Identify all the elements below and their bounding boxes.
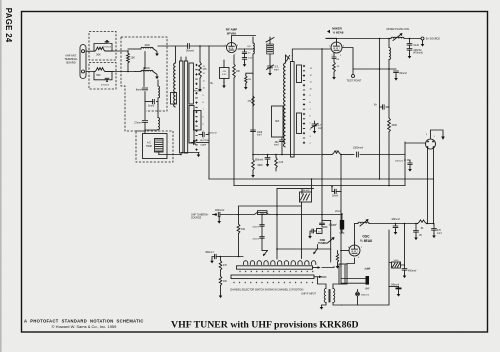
mixer wafer rotor arrows [286, 55, 290, 61]
wire bus y188.6 [277, 179, 314, 194]
ground RF cathode box [223, 79, 225, 84]
svg-text:470mmf: 470mmf [103, 46, 111, 48]
test point terminal [347, 69, 362, 83]
UHF osc coax connector [340, 213, 345, 235]
wire osc grid [354, 224, 356, 244]
svg-text:6: 6 [237, 45, 238, 47]
wire bus y206 [239, 202, 302, 259]
svg-text:15K: 15K [131, 57, 136, 60]
capacitor 1500mmf wafer bypass [199, 132, 217, 136]
mixer switch wafer strip 2 [297, 65, 302, 83]
wire left feed junction [252, 154, 254, 156]
ground wafer [198, 153, 200, 155]
RF wafer contact ticks [196, 64, 197, 150]
svg-text:mmf: mmf [248, 58, 253, 60]
resistor 390-560 boxed [300, 190, 312, 202]
svg-text:A PHOTOFACT STANDARD NOTATI: A PHOTOFACT STANDARD NOTATION SCHEMATIC [24, 318, 144, 323]
svg-text:mmf: mmf [274, 145, 279, 147]
wire bus AGC y185.5 [234, 185, 405, 187]
wire osc cathode left [341, 250, 349, 252]
wire RF grid line [158, 46, 188, 60]
svg-text:SOURCE: SOURCE [191, 217, 202, 220]
wire main vertical bus left [208, 46, 210, 179]
resistor 10K osc lower [219, 276, 228, 298]
capacitor 180mmf osc plate [391, 219, 416, 235]
svg-text:CHANNEL SELECTOR SWITCH SHOWN: CHANNEL SELECTOR SWITCH SHOWN IN CHANNEL… [230, 288, 304, 291]
resistor 15K antenna shunt [127, 50, 136, 72]
wire wafer bottom bus [181, 152, 199, 154]
resistor 1M bleeder [244, 73, 253, 89]
svg-text:MIXER PLATE COIL: MIXER PLATE COIL [387, 28, 410, 31]
svg-text:400mmf: 400mmf [408, 271, 417, 273]
svg-text:7: 7 [235, 54, 236, 56]
wire mixer plate to B+ rail [336, 39, 338, 40]
oscillator switch stator bar 2 [231, 275, 322, 279]
antenna balun coil lower 1000 [135, 67, 159, 79]
channel number column mixer wafer [310, 68, 313, 145]
wire osc switch feed [221, 256, 244, 258]
svg-text:.005mfd: .005mfd [413, 50, 422, 52]
svg-text:UHF: UHF [340, 232, 345, 235]
svg-text:10: 10 [318, 231, 320, 233]
osc section coil box [339, 264, 347, 284]
capacitor 56mmf grid [186, 44, 226, 53]
arrow UHF B+ source [213, 214, 217, 216]
svg-text:82mmf: 82mmf [400, 72, 408, 75]
resistor 3300 IF [388, 118, 398, 186]
svg-text:56mmf: 56mmf [186, 49, 194, 52]
svg-text:5mmf: 5mmf [332, 196, 338, 198]
B+ supply terminal [421, 37, 441, 47]
wire AGC vertical [233, 78, 235, 186]
wire mixer output to test point [342, 48, 396, 70]
svg-text:47K: 47K [203, 68, 208, 71]
UHF IF coax connector [365, 268, 371, 290]
wire IF output drop [388, 69, 390, 118]
svg-text:470mmf: 470mmf [101, 85, 109, 87]
RF cathode network box [220, 60, 230, 85]
svg-text:390mmf: 390mmf [255, 160, 264, 162]
wire mixer plate rail [326, 38, 391, 40]
capacitor 62mmf osc injection [253, 237, 265, 251]
svg-text:10K: 10K [241, 228, 246, 231]
dashed shield box antenna coils [121, 37, 167, 131]
capacitor .05 osc [414, 224, 423, 241]
svg-text:VHF ANT.: VHF ANT. [65, 54, 77, 58]
wire balun center tap [144, 52, 146, 69]
svg-text:1000mmf: 1000mmf [215, 210, 225, 212]
tube V4 UHF oscillator socket [426, 130, 445, 149]
svg-text:47K: 47K [223, 265, 228, 267]
svg-text:MIX: MIX [275, 121, 280, 123]
svg-text:10K: 10K [223, 281, 228, 283]
trimmer capacitor .5-3mmf [267, 60, 279, 76]
input coil lower [145, 105, 160, 130]
wire uhf if link [342, 279, 366, 284]
svg-text:2: 2 [329, 46, 330, 48]
svg-text:180mmf: 180mmf [361, 294, 369, 296]
neutralizing capacitor [191, 139, 211, 147]
RF lower wafer box [194, 111, 202, 131]
dashed shield box upper antenna network [89, 32, 116, 61]
capacitor RF bypass pair [238, 49, 255, 67]
RF switch wafer strip 1 [180, 57, 183, 153]
capacitor 390mmf agc bypass [255, 155, 270, 167]
wire antenna bottom lead [86, 71, 135, 73]
wire right IF vertical [404, 142, 406, 186]
resistor 56K upper [95, 47, 113, 56]
tube V3 oscillator triode [348, 243, 363, 259]
svg-text:1000: 1000 [144, 44, 150, 47]
svg-text:3300: 3300 [392, 124, 398, 127]
svg-text:½ 6EA8: ½ 6EA8 [360, 239, 372, 243]
svg-text:6FV8A: 6FV8A [227, 31, 237, 35]
svg-text:VHF TUNER with UHF provisions: VHF TUNER with UHF provisions KRK86D [171, 319, 359, 330]
oscillator switch stator bar 1 [237, 266, 321, 269]
RF coil wafer winding [174, 60, 176, 107]
svg-text:mmf: mmf [257, 134, 262, 136]
svg-text:TEST POINT: TEST POINT [347, 80, 362, 83]
dashed shield box lower antenna network [89, 63, 116, 90]
svg-text:62mmf: 62mmf [253, 239, 260, 241]
capacitor 180mmf IF line [395, 160, 412, 172]
resistor 47K AGC [194, 45, 207, 92]
wire IF bus line [322, 154, 332, 156]
mixer switch wafer strip 1 [291, 56, 295, 158]
wire osc grid tap [277, 248, 331, 250]
capacitor 27mmf [134, 102, 147, 130]
trimmer capacitor 1-7mmf osc [311, 121, 323, 134]
page edge shading [0, 0, 2, 352]
mixer cathode components [332, 53, 340, 80]
capacitor 8mmf [136, 68, 148, 92]
capacitor 470mmf upper [94, 40, 112, 51]
svg-text:5600: 5600 [394, 260, 400, 262]
wire vertical 377 main [379, 39, 381, 180]
wire osc line right [277, 214, 342, 216]
input coil upper [158, 80, 160, 98]
dashed box sound trap [136, 131, 173, 162]
wire 398 tap [389, 286, 399, 288]
oscillator channel coils row [244, 261, 316, 265]
svg-text:8mmf: 8mmf [136, 88, 142, 91]
capacitor 470mmf osc [432, 224, 442, 239]
capacitor 82mmf [394, 71, 408, 81]
IF output transformer [318, 278, 342, 310]
wire bus vertical 277 [276, 189, 278, 259]
mixer lower wafer strip [297, 113, 302, 134]
resistor osc grid leak [336, 251, 340, 269]
oscillator switch contact ticks row 2 [233, 282, 313, 283]
capacitor 1500mmf IF out [353, 147, 405, 157]
tube V1 RF amplifier [225, 40, 239, 56]
svg-text:PAGE 24: PAGE 24 [4, 8, 13, 43]
wire crystal tube leads [405, 142, 426, 144]
capacitor 82mmf osc injection [253, 214, 265, 237]
svg-text:(470mmf): (470mmf) [413, 53, 423, 55]
svg-text:© Howard W. Sams & Co., Inc. 1: © Howard W. Sams & Co., Inc. 1959 [52, 324, 118, 329]
capacitor 1.5mmf osc inj [329, 211, 341, 226]
capacitor .5mfd decoupling [407, 38, 423, 59]
svg-text:27mmf: 27mmf [134, 121, 142, 124]
svg-text:390mmf: 390mmf [205, 252, 214, 254]
osc plate coil [355, 220, 396, 227]
RF switch wafer strip 3 [189, 63, 193, 104]
mixer wafer contact ticks [303, 65, 304, 143]
resistor 56K lower [94, 68, 113, 80]
oscillator switch contact ticks row 1 [239, 271, 313, 272]
svg-text:½ 6EA8: ½ 6EA8 [333, 30, 344, 34]
svg-text:B+ SOURCE: B+ SOURCE [426, 38, 440, 41]
trap coil box A-C [143, 130, 168, 159]
wire bottom right net [389, 224, 405, 266]
antenna balun coil upper 1000 [128, 44, 159, 56]
wire osc feedback 341 [340, 155, 342, 267]
resistor 82 ohm [415, 220, 434, 230]
mixer plate coil [391, 34, 421, 41]
wire mixer plate line [326, 37, 337, 39]
wire trap output to switch [159, 154, 181, 156]
svg-text:6800: 6800 [258, 165, 264, 167]
capacitor 1000mmf UHF B+ [215, 210, 239, 224]
resistor 6800 [251, 155, 263, 178]
svg-text:1.5mmf: 1.5mmf [329, 224, 337, 226]
svg-text:1500mmf: 1500mmf [353, 147, 363, 150]
antenna terminal board [80, 45, 86, 79]
capacitor B+ rail 377 [374, 105, 389, 110]
fine tuning variable capacitor [322, 221, 334, 263]
channel number column RF wafer [203, 66, 206, 147]
RF wafer stator segment [171, 93, 177, 105]
interstage coupling coil [247, 37, 254, 155]
capacitor 390mmf mixer [274, 138, 284, 155]
svg-text:A-C: A-C [147, 142, 151, 145]
svg-text:ON: ON [223, 71, 227, 73]
wire bus B+ y179 [209, 178, 434, 180]
wire osc injection vertical [321, 49, 323, 223]
capacitor 400mmf bottom [402, 265, 417, 278]
svg-text:TUNING: TUNING [318, 242, 327, 245]
wire osc cathode down [347, 258, 355, 264]
svg-text:TRAP: TRAP [146, 145, 153, 148]
resistor 5600 boxed bottom [392, 260, 401, 268]
svg-text:2: 2 [225, 45, 226, 47]
switch wiper arrow left [262, 251, 268, 257]
wire mixer bottom bus [253, 154, 321, 156]
svg-text:2.2K: 2.2K [279, 162, 284, 164]
svg-text:BOARD: BOARD [66, 61, 75, 65]
capacitor 5mmf osc [331, 186, 341, 198]
capacitor 10mmf fine tuning [308, 229, 322, 239]
resistor 4.7K osc [219, 257, 227, 277]
svg-text:390-560: 390-560 [301, 190, 310, 192]
capacitor 390mmf osc agc [205, 252, 221, 263]
capacitor 180mmf bottom solid [391, 285, 402, 297]
svg-text:180mmf: 180mmf [391, 219, 400, 221]
svg-text:UHF: UHF [366, 268, 371, 270]
switch wiper arrow right [313, 245, 317, 255]
svg-text:4.5V: 4.5V [222, 74, 227, 76]
resistor 10 ohm [332, 151, 354, 155]
resistor 470 on feed [247, 96, 254, 106]
feedthrough capacitor 180mmf [356, 290, 370, 306]
mixer coil wafer winding [284, 55, 286, 147]
plate choke coil [388, 38, 390, 69]
svg-text:82mmf: 82mmf [253, 227, 260, 229]
capacitor 1.5mmf osc coupling [320, 223, 337, 227]
capacitor 470mmf lower [101, 78, 109, 86]
svg-text:180mmf: 180mmf [395, 161, 403, 163]
svg-text:2mmf: 2mmf [148, 105, 154, 108]
resistor RF cathode [233, 55, 241, 78]
svg-text:mmf: mmf [274, 69, 279, 71]
capacitor 1000mmf feed bypass [251, 130, 263, 136]
RF lower wafer strip [189, 106, 194, 144]
svg-text:56K: 56K [96, 54, 101, 57]
interstage shielded coil [266, 37, 274, 60]
wire osc out bottom [342, 230, 390, 305]
svg-text:56K: 56K [96, 74, 101, 77]
svg-text:2mmf: 2mmf [335, 211, 341, 213]
RF switch wafer strip 2 [184, 57, 187, 153]
resistor 10K dropping [237, 214, 246, 257]
wire RF plate top [232, 36, 256, 41]
svg-text:UHF IF INPUT: UHF IF INPUT [301, 294, 317, 296]
wire osc coil returns [322, 267, 335, 278]
coil 1000 osc feed [239, 211, 278, 216]
svg-text:RF AGC: RF AGC [194, 90, 203, 93]
wire antenna top lead [86, 50, 128, 52]
tube V2 mixer pentode [329, 40, 344, 57]
wire mixer grid line [292, 49, 331, 56]
svg-text:1M: 1M [248, 79, 251, 81]
svg-text:3: 3 [340, 55, 341, 57]
svg-text:mmf: mmf [437, 233, 442, 235]
resistor 2.2K [275, 155, 284, 172]
svg-text:LM: LM [247, 46, 250, 48]
svg-text:.5mfd: .5mfd [413, 45, 419, 47]
svg-text:VHF: VHF [365, 289, 370, 291]
mixer wafer box left [272, 106, 284, 137]
svg-text:TERMINAL: TERMINAL [64, 57, 78, 61]
capacitor 2mmf [145, 92, 158, 108]
